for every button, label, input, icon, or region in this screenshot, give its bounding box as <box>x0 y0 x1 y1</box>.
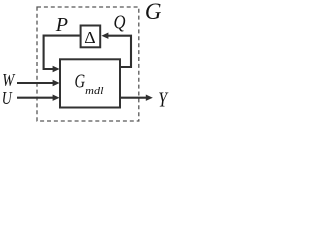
svg-text:Δ: Δ <box>84 28 95 47</box>
arrowhead P into Gmdl <box>53 66 60 72</box>
arrowhead Q into delta <box>101 33 108 39</box>
svg-text:U: U <box>2 88 13 108</box>
svg-text:Q: Q <box>114 13 126 34</box>
svg-text:G: G <box>75 71 86 93</box>
wire U input <box>17 97 55 99</box>
delta uncertainty box <box>81 26 101 48</box>
wire Q: from Gmdl right edge up into delta <box>107 36 132 67</box>
wire W input <box>17 82 55 84</box>
wire P: from delta output, left and down into Gmdl <box>44 36 80 69</box>
svg-text:mdl: mdl <box>85 86 103 97</box>
arrowhead U <box>53 95 60 101</box>
svg-text:G: G <box>145 0 162 24</box>
dashed system boundary box <box>37 7 139 121</box>
wire Y output <box>120 97 148 99</box>
arrowhead W <box>53 80 60 86</box>
svg-text:P: P <box>55 14 68 36</box>
arrowhead Y <box>146 95 153 101</box>
Gmdl model box <box>60 59 120 107</box>
